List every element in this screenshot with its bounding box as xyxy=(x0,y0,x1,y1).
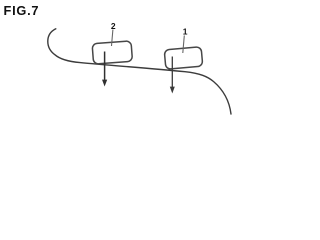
arrow 1 head xyxy=(170,87,175,94)
arrow 1 shaft xyxy=(171,57,173,88)
arrow 2 shaft xyxy=(104,52,106,81)
box 2 (rounded rectangle) xyxy=(92,41,132,64)
leader line for label 1 xyxy=(183,36,185,54)
svg-text:1: 1 xyxy=(183,26,188,36)
figure title FIG.7 xyxy=(4,3,40,18)
arrow 2 head xyxy=(102,80,107,87)
curved road line xyxy=(48,29,231,114)
box 1 (rounded rectangle) xyxy=(164,47,203,70)
leader line for label 2 xyxy=(112,30,113,47)
svg-text:2: 2 xyxy=(111,21,116,31)
